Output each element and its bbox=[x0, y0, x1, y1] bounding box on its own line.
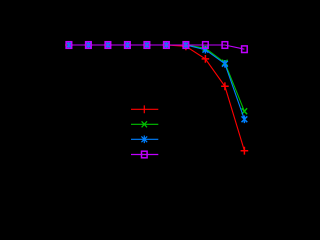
series 3 blue line bbox=[69, 45, 245, 119]
series 2 green line bbox=[69, 45, 245, 111]
series 1 red plus markers bbox=[65, 41, 248, 155]
legend entry 3 blue line sample with asterisk bbox=[131, 136, 158, 144]
series 3 blue asterisk markers bbox=[66, 41, 247, 123]
series 4 magenta square markers bbox=[66, 42, 247, 53]
legend entry 4 magenta line sample with square bbox=[131, 154, 158, 156]
series 2 green x markers bbox=[66, 42, 247, 114]
legend entry 2 green line sample with x bbox=[131, 121, 158, 127]
legend entry 1 red line sample with plus bbox=[131, 105, 158, 113]
series 4 magenta line bbox=[69, 45, 245, 49]
series 1 red line bbox=[69, 45, 245, 151]
